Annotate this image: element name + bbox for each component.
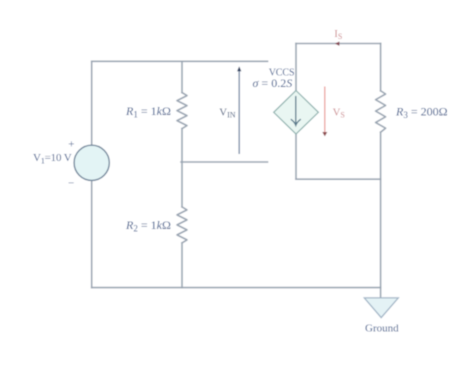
svg-text:R3 = 200Ω: R3 = 200Ω [395,105,448,121]
svg-text:Ground: Ground [365,322,399,334]
arrow VIN measurement [237,66,241,154]
arrow IS on top wire [335,42,340,46]
wire VCCS upper lead [295,44,297,91]
resistor R1 [177,93,187,129]
wire left vertical upper [91,61,93,145]
wire R2 branch bottom [181,243,183,288]
wire R2 branch top [181,162,183,207]
wire R3 branch top [380,44,382,91]
wire R3 branch bottom to ground [380,132,382,298]
resistor R3 [376,91,386,132]
wire bottom rail [92,287,381,289]
VCCS U1 diamond [274,91,319,135]
VCCS internal arrow [291,97,300,126]
resistor R2 [177,207,187,243]
svg-text:R1 = 1kΩ: R1 = 1kΩ [125,104,171,120]
ground [364,298,398,318]
wire left vertical lower [91,180,93,287]
svg-text:R2 = 1kΩ: R2 = 1kΩ [125,218,171,234]
svg-text:V1=10 V: V1=10 V [33,152,72,165]
wire R1 branch top [181,61,183,92]
svg-text:σ = 0.2S: σ = 0.2S [253,76,293,90]
wire VCCS lower lead [295,134,297,179]
arrow VS [322,87,327,137]
svg-text:−: − [68,177,74,189]
wire middle rail [181,161,268,163]
voltage source V1 [74,145,109,180]
wire VCCS loop top [296,43,381,45]
wire top rail [92,60,268,62]
wire VCCS loop bottom [296,178,381,180]
wire R1 branch bottom [181,129,183,162]
svg-text:+: + [68,138,74,150]
